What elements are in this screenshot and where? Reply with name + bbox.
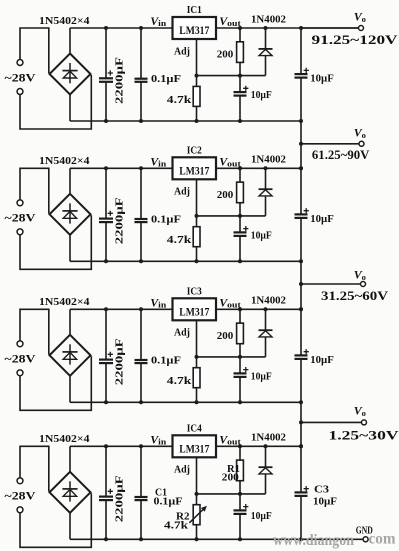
wire Vout rail right of IC3 (stage 3): [216, 308, 301, 310]
polarity + of Adj 10µF (stage 3): [243, 367, 248, 372]
svg-text:10µF: 10µF: [251, 511, 272, 522]
wire Vo1 output lead: [301, 27, 359, 29]
svg-text:10µF: 10µF: [313, 496, 337, 508]
wire V+ rail left of IC1 (stage 1): [70, 27, 173, 29]
output terminal Vo3: [361, 282, 366, 287]
capacitor 10µF output (stage 3): [295, 309, 308, 402]
svg-text:C3: C3: [314, 484, 330, 496]
svg-text:GND: GND: [356, 525, 373, 537]
wire bridge positive output riser (stage 4): [69, 446, 71, 472]
junction negative rail / link (stage 4): [299, 537, 303, 541]
AC input terminal 2 (stage 3): [17, 370, 23, 376]
svg-text:1.25~30V: 1.25~30V: [329, 428, 399, 442]
bridge rectifier 1N5402×4 (stage 1): [50, 54, 91, 95]
junction 4.7k bottom (stage 3): [195, 400, 199, 404]
svg-text:Adj: Adj: [174, 186, 190, 198]
capacitor 2200µF (stage 4): [99, 446, 113, 539]
pin label Vout (stage 3): [219, 295, 241, 309]
svg-text:1N5402×4: 1N5402×4: [39, 155, 90, 167]
wire Adj pin (stage 2): [196, 179, 198, 261]
svg-text:~28V: ~28V: [5, 211, 36, 225]
wire Vout rail right of IC1 (stage 1): [216, 27, 358, 29]
diode 1N4002 (stage 3): [259, 309, 273, 357]
svg-text:out: out: [227, 299, 241, 309]
junction 2200µF bottom (stage 3): [104, 400, 108, 404]
svg-text:~28V: ~28V: [5, 70, 36, 84]
junction 200Ω top (stage 2): [238, 166, 242, 170]
svg-text:2200µF: 2200µF: [114, 57, 125, 104]
svg-text:o: o: [362, 272, 366, 282]
junction 0.1µF top (stage 3): [139, 307, 143, 311]
junction 200Ω top (stage 1): [238, 26, 242, 30]
wire bridge positive output riser (stage 3): [69, 309, 71, 335]
bridge rectifier 1N5402×4 (stage 3): [50, 335, 91, 376]
svg-text:2200µF: 2200µF: [114, 475, 125, 522]
wire series link stage 2 to stage 3: [300, 261, 302, 309]
junction 1N4002 cathode rail (stage 3): [264, 307, 268, 311]
label Vo3: [354, 268, 366, 282]
polarity + of output 10µF (stage 3): [304, 349, 309, 354]
wire Vout rail right of IC4 (stage 4): [216, 445, 301, 447]
junction 0.1µF bottom (stage 4): [139, 537, 143, 541]
svg-text:LM317: LM317: [179, 25, 209, 37]
junction link to stage 2 rail: [299, 166, 303, 170]
svg-text:2200µF: 2200µF: [114, 338, 125, 385]
wire V+ rail left of IC4 (stage 4): [70, 445, 173, 447]
diode 1N4002 (stage 2): [259, 168, 273, 216]
wire bridge positive output riser (stage 1): [69, 28, 71, 54]
svg-text:91.25~120V: 91.25~120V: [312, 33, 398, 47]
junction Adj wire / 200Ω bottom (stage 2): [238, 214, 242, 218]
resistor 4.7k (stage 1): [193, 86, 200, 106]
svg-text:1N4002: 1N4002: [251, 433, 286, 444]
svg-text:0.1µF: 0.1µF: [151, 355, 181, 367]
svg-text:1N5402×4: 1N5402×4: [39, 296, 90, 308]
AC input terminal 2 (stage 2): [17, 229, 23, 235]
polarity + of Adj 10µF (stage 2): [243, 226, 248, 231]
wire Adj node to diode anode (stage 1): [197, 75, 266, 77]
ground terminal GND: [363, 537, 368, 542]
junction 0.1µF top (stage 4): [139, 444, 143, 448]
svg-text:10µF: 10µF: [310, 214, 334, 225]
junction link to stage 3 rail: [299, 307, 303, 311]
wire bridge negative lead (stage 4): [69, 513, 71, 540]
capacitor 10µF output (stage 4): [295, 446, 308, 539]
svg-text:in: in: [158, 18, 166, 28]
junction 1N4002 cathode rail (stage 2): [264, 166, 268, 170]
svg-text:Adj: Adj: [174, 45, 190, 57]
junction Adj cap bottom (stage 4): [238, 537, 242, 541]
wire Adj pin (stage 1): [196, 39, 198, 121]
svg-text:10µF: 10µF: [251, 231, 272, 242]
capacitor 10µF Adj bypass (stage 4): [234, 494, 247, 539]
pin label Vin (stage 3): [150, 295, 166, 309]
junction output cap top (stage 3): [299, 307, 303, 311]
svg-text:2200µF: 2200µF: [114, 197, 125, 244]
output terminal Vo2: [359, 141, 364, 146]
svg-text:in: in: [158, 299, 166, 309]
resistor 200 (stage 1): [237, 28, 244, 76]
junction Adj cap bottom (stage 3): [238, 400, 242, 404]
wire Adj pin (stage 3): [196, 320, 198, 402]
svg-text:31.25~60V: 31.25~60V: [321, 289, 388, 303]
junction 1N4002 cathode rail (stage 1): [264, 26, 268, 30]
regulator IC3 LM317 (stage 3): [173, 298, 217, 320]
regulator IC2 LM317 (stage 2): [173, 157, 217, 179]
AC input terminal 1 (stage 1): [17, 60, 23, 66]
capacitor 0.1µF (stage 3): [135, 309, 148, 402]
diode 1N4002 (stage 1): [259, 28, 273, 76]
junction negative rail / link (stage 1): [299, 119, 303, 123]
junction Adj node (stage 3): [195, 355, 199, 359]
output terminal Vo1: [359, 26, 364, 31]
svg-text:LM317: LM317: [179, 307, 209, 319]
svg-text:0.1µF: 0.1µF: [151, 73, 181, 85]
svg-text:0.1µF: 0.1µF: [154, 496, 183, 508]
wire AC terminal 2 to bridge right vertex (stage 2): [20, 215, 91, 269]
junction 2200µF top (stage 4): [104, 444, 108, 448]
wire bridge positive output riser (stage 2): [69, 168, 71, 194]
svg-text:o: o: [362, 14, 366, 24]
junction 4.7k bottom (stage 4): [195, 537, 199, 541]
junction negative rail / link (stage 3): [299, 400, 303, 404]
polarity + of Adj 10µF (stage 1): [243, 86, 248, 91]
pin label Vout (stage 2): [219, 154, 241, 168]
polarity + of output 10µF (stage 1): [304, 68, 309, 73]
junction 0.1µF top (stage 1): [139, 26, 143, 30]
junction Adj node (stage 1): [195, 74, 199, 78]
wire bridge negative lead (stage 1): [69, 95, 71, 122]
AC input terminal 1 (stage 4): [17, 478, 23, 484]
svg-text:out: out: [227, 18, 241, 28]
wire AC terminal 1 to bridge left vertex (stage 4): [20, 446, 49, 491]
svg-text:~28V: ~28V: [5, 352, 36, 366]
junction 0.1µF top (stage 2): [139, 166, 143, 170]
diode 1N4002 (stage 4): [259, 446, 273, 494]
junction 200Ω top (stage 4): [238, 444, 242, 448]
svg-text:o: o: [362, 408, 366, 418]
label Vo1: [354, 10, 366, 24]
wire Vo3 output tap: [301, 283, 361, 285]
wire Vout rail right of IC2 (stage 2): [216, 167, 301, 169]
junction 4.7k bottom (stage 1): [195, 119, 199, 123]
wire negative rail (stage 3): [70, 401, 301, 403]
wire V+ rail left of IC2 (stage 2): [70, 167, 173, 169]
svg-text:200: 200: [222, 471, 240, 483]
capacitor 2200µF (stage 1): [99, 28, 113, 121]
wire negative rail (stage 2): [70, 260, 301, 262]
svg-text:200: 200: [217, 189, 234, 201]
svg-text:4.7k: 4.7k: [164, 520, 189, 532]
svg-text:in: in: [158, 436, 166, 446]
wire AC terminal 1 to bridge left vertex (stage 3): [20, 309, 49, 354]
polarity + of output 10µF (stage 4): [304, 486, 309, 491]
svg-text:1N4002: 1N4002: [251, 296, 286, 307]
junction 2200µF top (stage 2): [104, 166, 108, 170]
AC input terminal 2 (stage 1): [17, 89, 23, 95]
wire AC terminal 1 to bridge left vertex (stage 2): [20, 168, 49, 213]
capacitor 10µF Adj bypass (stage 3): [234, 357, 247, 402]
label Vo4: [354, 404, 366, 418]
svg-text:0.1µF: 0.1µF: [151, 214, 181, 226]
regulator IC4 LM317 (stage 4): [173, 435, 217, 457]
bridge rectifier 1N5402×4 (stage 4): [50, 472, 91, 513]
svg-text:4.7k: 4.7k: [167, 375, 193, 387]
capacitor 0.1µF (stage 4): [135, 446, 148, 539]
junction link to stage 4 rail: [299, 444, 303, 448]
svg-text:10µF: 10µF: [251, 372, 272, 383]
pin label Vin (stage 1): [150, 14, 166, 28]
bridge rectifier 1N5402×4 (stage 2): [50, 194, 91, 235]
junction 2200µF top (stage 3): [104, 307, 108, 311]
polarity + of 2200µF (stage 3): [108, 352, 113, 357]
junction output cap top (stage 1): [299, 26, 303, 30]
svg-text:IC4: IC4: [187, 423, 202, 435]
resistor 200 (stage 3): [237, 309, 244, 357]
capacitor 10µF Adj bypass (stage 1): [234, 76, 247, 121]
svg-text:IC2: IC2: [187, 145, 202, 157]
svg-text:1N5402×4: 1N5402×4: [39, 15, 90, 27]
junction Adj cap bottom (stage 2): [238, 259, 242, 263]
polarity + of Adj 10µF (stage 4): [243, 504, 248, 509]
svg-text:LM317: LM317: [179, 444, 209, 456]
pin label Vout (stage 4): [219, 432, 241, 446]
junction negative rail / link (stage 2): [299, 259, 303, 263]
junction Adj wire / 200Ω bottom (stage 3): [238, 355, 242, 359]
wire Adj node to diode anode (stage 3): [197, 356, 266, 358]
potentiometer wiper arrow (stage 4): [189, 508, 205, 523]
svg-text:IC1: IC1: [187, 4, 202, 16]
wire series link stage 1 to stage 2: [300, 121, 302, 168]
resistor R1 200 (stage 4): [237, 446, 244, 494]
wire bridge negative lead (stage 3): [69, 376, 71, 403]
junction 1N4002 cathode rail (stage 4): [264, 444, 268, 448]
junction 2200µF bottom (stage 1): [104, 119, 108, 123]
svg-text:o: o: [362, 130, 366, 140]
wire Vo4 output tap: [301, 421, 362, 423]
junction Vo3 tap: [299, 282, 303, 286]
wire ground rail to GND terminal: [301, 538, 363, 540]
svg-text:IC3: IC3: [187, 286, 202, 298]
svg-text:1N5402×4: 1N5402×4: [39, 433, 90, 445]
wire Adj node to diode anode (stage 2): [197, 215, 266, 217]
svg-text:in: in: [158, 158, 166, 168]
svg-text:200: 200: [217, 330, 234, 342]
pin label Vin (stage 2): [150, 154, 166, 168]
svg-text:~28V: ~28V: [5, 489, 36, 503]
potentiometer R2 4.7k (stage 4): [193, 505, 200, 525]
pin label Vin (stage 4): [150, 432, 166, 446]
wire bridge negative lead (stage 2): [69, 235, 71, 261]
wire negative rail (stage 4): [70, 538, 301, 540]
junction Vo4 tap: [299, 420, 303, 424]
capacitor 0.1µF (stage 1): [135, 28, 148, 121]
output terminal Vo4: [362, 420, 367, 425]
svg-text:10µF: 10µF: [310, 355, 334, 366]
svg-text:LM317: LM317: [179, 166, 209, 178]
svg-text:4.7k: 4.7k: [167, 234, 193, 246]
AC input terminal 1 (stage 2): [17, 200, 23, 206]
svg-text:out: out: [227, 436, 241, 446]
wire Adj pin (stage 4): [196, 457, 198, 539]
junction 200Ω top (stage 3): [238, 307, 242, 311]
junction 0.1µF bottom (stage 2): [139, 259, 143, 263]
wire Adj node to diode anode (stage 4): [197, 493, 266, 495]
svg-text:1N4002: 1N4002: [251, 155, 286, 166]
wire V+ rail left of IC3 (stage 3): [70, 308, 173, 310]
label Vo2: [354, 126, 366, 140]
wire AC terminal 2 to bridge right vertex (stage 3): [20, 356, 91, 410]
svg-text:200: 200: [217, 49, 234, 61]
capacitor 10µF output (stage 2): [295, 168, 308, 261]
wire AC terminal 1 to bridge left vertex (stage 1): [20, 28, 49, 73]
svg-text:1N4002: 1N4002: [251, 14, 286, 25]
wire AC terminal 2 to bridge right vertex (stage 1): [20, 75, 91, 129]
svg-text:out: out: [227, 158, 241, 168]
resistor 200 (stage 2): [237, 168, 244, 216]
svg-text:Adj: Adj: [174, 327, 190, 339]
polarity + of 2200µF (stage 4): [108, 489, 113, 494]
AC input terminal 1 (stage 3): [17, 341, 23, 347]
polarity + of 2200µF (stage 1): [108, 70, 113, 75]
wire Vo2 output tap: [301, 143, 359, 145]
capacitor 2200µF (stage 3): [99, 309, 113, 402]
capacitor 10µF output (stage 1): [295, 28, 308, 121]
svg-text:10µF: 10µF: [251, 90, 272, 101]
junction Adj wire / 200Ω bottom (stage 4): [238, 492, 242, 496]
junction 0.1µF bottom (stage 3): [139, 400, 143, 404]
pin label Vout (stage 1): [219, 14, 241, 28]
resistor 4.7k (stage 2): [193, 227, 200, 247]
junction 0.1µF bottom (stage 1): [139, 119, 143, 123]
svg-text:61.25~90V: 61.25~90V: [312, 148, 370, 162]
capacitor 2200µF (stage 2): [99, 168, 113, 261]
junction Vo2 tap: [299, 142, 303, 146]
wire AC terminal 2 to bridge right vertex (stage 4): [20, 493, 91, 547]
svg-text:10µF: 10µF: [310, 74, 334, 85]
polarity + of output 10µF (stage 2): [304, 208, 309, 213]
junction Adj node (stage 2): [195, 214, 199, 218]
regulator IC1 LM317 (stage 1): [173, 17, 217, 39]
junction Adj cap bottom (stage 1): [238, 119, 242, 123]
junction 2200µF bottom (stage 2): [104, 259, 108, 263]
wire negative rail (stage 1): [70, 120, 301, 122]
junction output cap top (stage 4): [299, 444, 303, 448]
wire series link stage 3 to stage 4: [300, 402, 302, 446]
capacitor 0.1µF (stage 2): [135, 168, 148, 261]
AC input terminal 2 (stage 4): [17, 507, 23, 513]
svg-text:www.diangon: www.diangon: [273, 532, 354, 549]
capacitor 10µF Adj bypass (stage 2): [234, 216, 247, 261]
junction Adj wire / 200Ω bottom (stage 1): [238, 74, 242, 78]
junction 2200µF top (stage 1): [104, 26, 108, 30]
junction 2200µF bottom (stage 4): [104, 537, 108, 541]
resistor 4.7k (stage 3): [193, 368, 200, 388]
junction 4.7k bottom (stage 2): [195, 259, 199, 263]
svg-text:4.7k: 4.7k: [167, 94, 193, 106]
svg-text:Adj: Adj: [174, 464, 190, 476]
junction Adj node (stage 4): [195, 492, 199, 496]
polarity + of 2200µF (stage 2): [108, 211, 113, 216]
junction output cap top (stage 2): [299, 166, 303, 170]
